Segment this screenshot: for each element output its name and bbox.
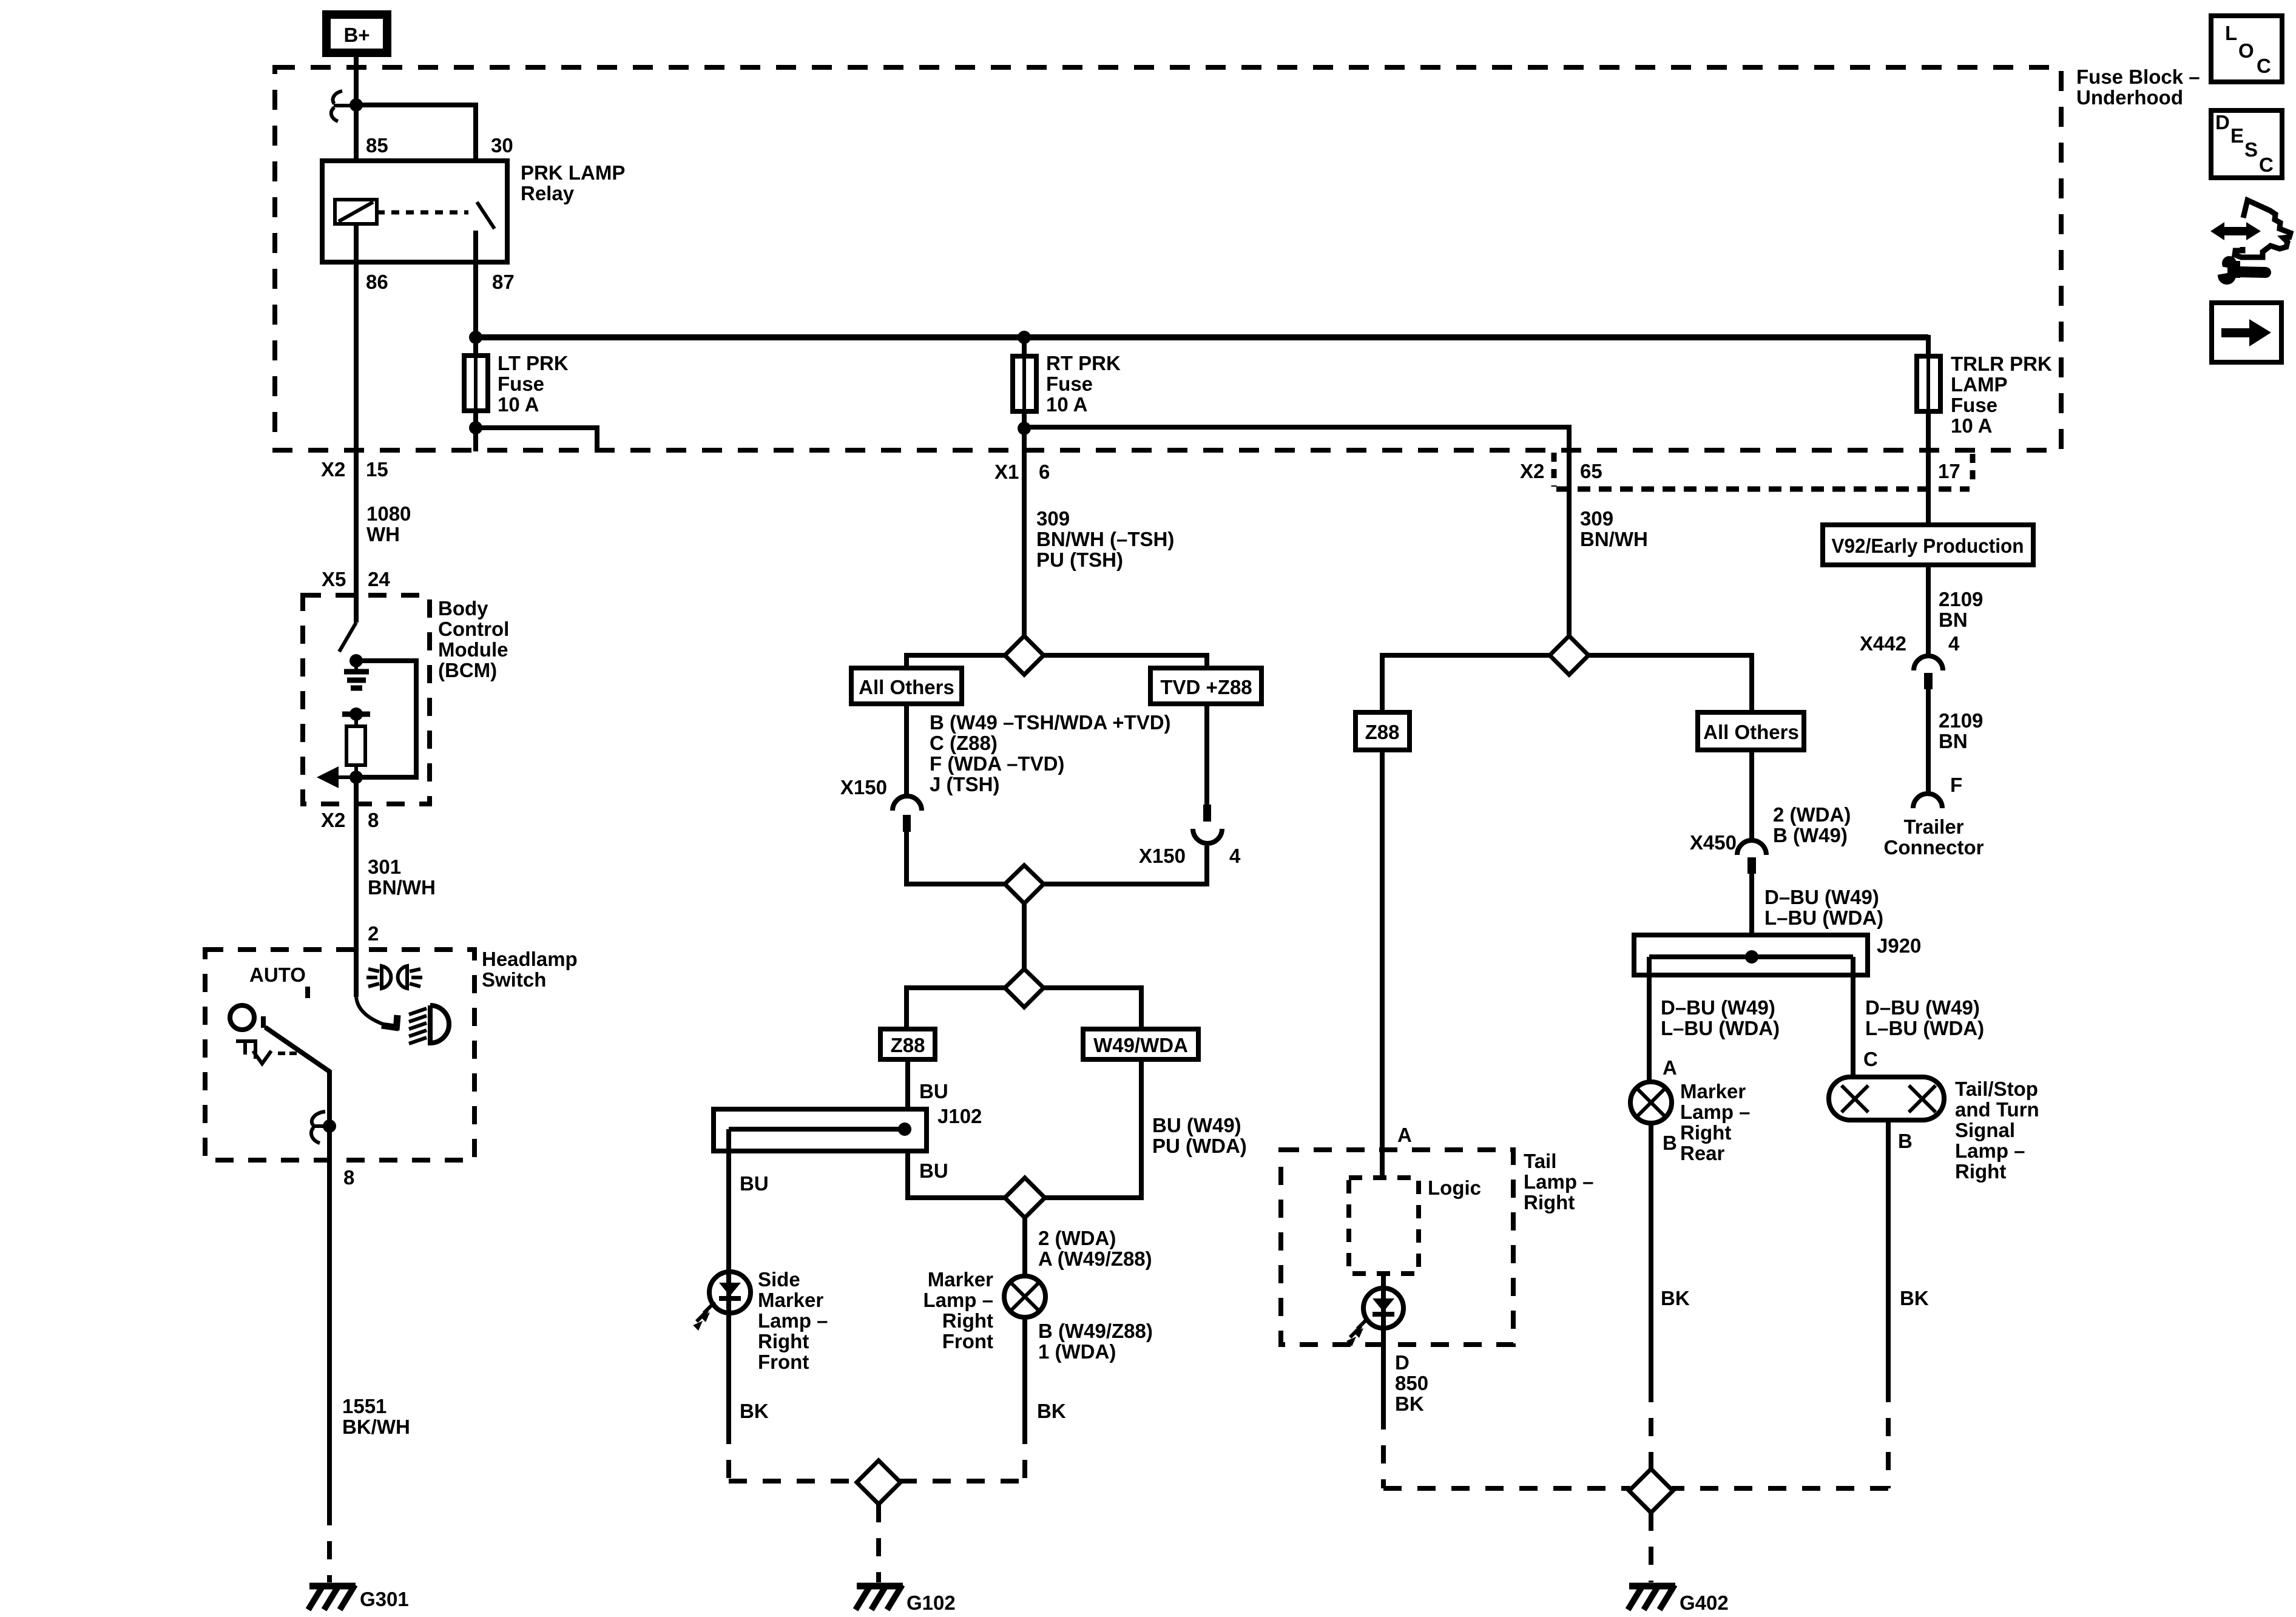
connector label X1 pin 6 [994,461,1050,483]
wire: Z88 to J102 [905,1059,910,1129]
svg-text:2109: 2109 [1939,588,1983,610]
dashed wire: marker rear to ground splice [1649,1384,1653,1470]
connector label X5 pin 24 [322,568,390,590]
OFF position tick [261,1016,266,1028]
LT PRK fuse label [498,352,569,416]
headlamp beam icon [409,1005,449,1044]
svg-text:10 A: 10 A [1951,414,1992,437]
wire label 309 BN/WH right [1580,507,1648,550]
svg-text:Right: Right [1955,1160,2006,1183]
wire label 2109 BN lower [1939,709,1983,752]
ground G402 [1628,1585,1675,1610]
wire: J920 right drop to tail/stop lamp [1851,957,1855,1077]
svg-text:B: B [1898,1130,1913,1152]
splice diamond S1 front marker feed [1005,636,1044,675]
wire: marker rear BK down [1649,1123,1653,1384]
svg-text:309: 309 [1580,507,1613,530]
svg-text:BN/WH: BN/WH [368,876,436,899]
node: BCM internal junction A [349,654,363,667]
svg-text:(BCM): (BCM) [438,659,497,681]
wire label 1551 BK/WH [342,1395,410,1438]
connector X150 right half pin 4 [1193,805,1222,843]
ground splice diamond G102 [857,1460,900,1504]
dashed wire to G301 [327,1507,332,1582]
svg-text:G102: G102 [907,1592,956,1614]
svg-text:TRLR PRK: TRLR PRK [1951,353,2052,375]
svg-text:2 (WDA): 2 (WDA) [1038,1227,1116,1249]
svg-text:A (W49/Z88): A (W49/Z88) [1038,1247,1152,1270]
svg-text:S: S [2244,138,2258,161]
node: switch output junction [323,1119,336,1133]
tail lamp right dashed box [1281,1150,1513,1345]
connector label X2 pin 8 [321,809,379,831]
svg-text:BN: BN [1939,730,1968,752]
svg-text:Fuse: Fuse [1046,373,1093,395]
trailer connector label [1884,815,1984,859]
svg-text:Fuse Block –: Fuse Block – [2076,66,2200,88]
svg-text:J102: J102 [937,1105,982,1127]
svg-text:30: 30 [491,134,513,157]
tail lamp LED rays [1346,1318,1368,1346]
svg-text:Signal: Signal [1955,1119,2015,1141]
wire label D-BU L-BU right drop [1865,996,1984,1039]
wire label 309 BN/WH (-TSH) PU (TSH) [1036,507,1174,571]
svg-text:Lamp –: Lamp – [1955,1139,2025,1162]
dashed wire: tail/stop to ground bus [1672,1384,1888,1488]
svg-text:C: C [1863,1048,1878,1070]
svg-text:X150: X150 [1139,845,1186,867]
svg-text:X5: X5 [322,568,346,590]
wire: LT PRK fuse output [473,411,478,451]
svg-text:Side: Side [758,1268,800,1291]
BCM label [438,597,509,681]
side marker LED rays [693,1302,715,1331]
svg-text:PU (TSH): PU (TSH) [1036,549,1123,571]
wire: Z88 rear to tail lamp logic [1380,750,1385,1178]
Z88 box (front) [880,1029,935,1059]
Body Control Module BCM dashed box [303,595,430,804]
svg-text:C (Z88): C (Z88) [930,732,998,754]
icon wrench [2212,256,2266,285]
connector X442 [1914,656,1943,689]
wire label 1080 WH [366,502,411,545]
wire: S5 to All Others rear branch [1589,655,1752,712]
wire label D-BU L-BU upper [1764,886,1883,929]
relay PRK LAMP box [322,161,507,262]
svg-text:V92/Early Production: V92/Early Production [1832,535,2024,557]
node: bus junction at RT PRK fuse [1018,331,1031,344]
tail/stop lamp label [1955,1078,2039,1183]
svg-text:Lamp –: Lamp – [1680,1101,1751,1123]
svg-text:10 A: 10 A [1046,393,1087,416]
svg-text:L–BU (WDA): L–BU (WDA) [1661,1017,1780,1039]
svg-text:BK: BK [1900,1287,1929,1309]
relay coil [335,200,377,224]
bulkhead curl on B+ wire [331,91,356,121]
svg-text:4: 4 [1229,845,1241,867]
ground G102 [856,1585,903,1610]
svg-text:Right: Right [1524,1191,1575,1214]
All Others box (front) [851,668,962,704]
wire: RT PRK output to right tail circuit [1024,427,1569,636]
wire: TRLR fuse to V92 box [1926,411,1931,525]
wire label D 850 BK [1395,1351,1428,1415]
headlamp switch input curve with arrow [356,997,399,1030]
wire label 301 BN/WH [368,856,436,899]
Z88 box (rear) [1356,712,1410,750]
svg-text:All Others: All Others [1703,721,1799,743]
svg-text:BK: BK [1037,1400,1066,1422]
svg-text:8: 8 [343,1166,354,1189]
svg-text:B (W49/Z88): B (W49/Z88) [1038,1320,1153,1342]
svg-text:Right: Right [942,1309,993,1332]
wire label D-BU L-BU left drop [1661,996,1780,1039]
relay switch blade [477,202,495,229]
BCM driver switch blade [339,623,356,652]
wire: J102 bottom to splice S4 [908,1151,1005,1198]
svg-text:D: D [1395,1351,1410,1374]
BCM internal ground [344,661,369,688]
pin annotation B C F J [930,711,1171,795]
svg-text:F: F [1950,774,1962,796]
connector label X2 pin 65 [1520,460,1602,482]
svg-text:D: D [2215,111,2230,133]
svg-text:301: 301 [368,856,401,878]
svg-text:BK: BK [1395,1393,1424,1415]
wire: S5 to Z88 rear branch [1382,655,1550,712]
icon next-page arrow box [2212,303,2281,362]
svg-text:Lamp –: Lamp – [923,1289,993,1311]
svg-text:Switch: Switch [482,968,546,991]
headlamp switch dashed box [205,950,474,1160]
connector X150 left half [893,796,922,832]
svg-text:BU: BU [919,1160,948,1182]
svg-text:B: B [1663,1132,1677,1154]
svg-text:2: 2 [368,922,379,945]
svg-text:Relay: Relay [521,182,575,204]
splice diamond S3 [1005,969,1044,1007]
marker lamp right rear label [1680,1080,1751,1164]
wire: X150 to lower splice [907,832,1005,884]
splice pack J920 [1634,935,1868,975]
svg-text:17: 17 [1938,460,1960,482]
svg-text:2 (WDA): 2 (WDA) [1773,803,1851,826]
wire label B (W49/Z88) 1 (WDA) [1038,1320,1153,1363]
connector label X2 pin 15 [321,458,388,481]
svg-text:L: L [2225,22,2237,44]
svg-text:A: A [1397,1124,1412,1146]
node: BCM output junction [349,771,363,784]
wire: X442 to trailer connector [1926,689,1931,794]
wire: side marker lamp BK down [726,1313,731,1426]
wire: tail lamp D 850 BK [1381,1328,1386,1411]
node: J920 bus junction [1745,950,1758,964]
svg-text:LT PRK: LT PRK [498,352,569,374]
side marker lamp label [758,1268,828,1373]
svg-text:X150: X150 [840,776,887,798]
svg-text:Fuse: Fuse [498,373,544,395]
svg-text:Rear: Rear [1680,1142,1725,1164]
svg-text:PRK LAMP: PRK LAMP [521,161,625,184]
svg-text:Underhood: Underhood [2076,86,2183,109]
svg-text:4: 4 [1948,632,1960,655]
BCM internal loop wire [356,661,416,777]
svg-text:Lamp –: Lamp – [1524,1170,1594,1193]
svg-text:BU (W49): BU (W49) [1152,1114,1241,1136]
svg-text:D–BU (W49): D–BU (W49) [1865,996,1980,1019]
wire: LT PRK output stub [476,428,597,451]
wire: junction to relay pin 30 [356,105,476,201]
svg-text:8: 8 [368,809,379,831]
svg-text:X442: X442 [1860,632,1906,655]
dashed BK wire right to ground bus [1022,1426,1027,1484]
node: LT PRK output junction [469,421,482,434]
svg-text:E: E [2230,124,2244,147]
wire: S3 to W49/WDA branch [1044,988,1141,1029]
marker lamp right front label [923,1268,993,1352]
resistor in BCM [346,714,365,777]
svg-text:BN/WH (–TSH): BN/WH (–TSH) [1036,528,1174,550]
splice diamond S4 [1005,1178,1045,1218]
BCM output arrow [317,766,356,788]
svg-text:Body: Body [438,597,488,619]
svg-text:Control: Control [438,618,509,640]
svg-text:RT PRK: RT PRK [1046,352,1121,374]
svg-text:85: 85 [366,134,388,157]
svg-text:2109: 2109 [1939,709,1983,732]
marker lamp right rear bulb [1630,1082,1672,1123]
svg-text:B (W49): B (W49) [1773,824,1848,846]
svg-text:X450: X450 [1690,831,1737,854]
splice pack J102 [714,1109,927,1151]
headlamp switch label [482,948,578,991]
svg-text:1551: 1551 [342,1395,387,1417]
icon part outline [2235,200,2291,257]
svg-text:BU: BU [740,1172,769,1195]
ground splice diamond G402 [1629,1469,1673,1513]
connector X450 [1737,840,1766,874]
svg-text:J920: J920 [1877,934,1921,957]
svg-text:L–BU (WDA): L–BU (WDA) [1865,1017,1984,1039]
logic dashed box [1349,1178,1419,1274]
svg-text:X2: X2 [1520,460,1544,482]
OFF position circle [230,1005,254,1030]
wire label 2 (WDA) A (W49/Z88) [1038,1227,1152,1270]
wire: S2 to S3 [1022,903,1027,969]
wire: S3 to Z88 branch [907,988,1005,1029]
svg-text:B (W49 –TSH/WDA +TVD): B (W49 –TSH/WDA +TVD) [930,711,1171,734]
wire: relay coil pin 86 down to BCM [354,224,359,623]
svg-text:WH: WH [366,523,400,545]
svg-text:J (TSH): J (TSH) [930,773,1000,795]
dashed BK wire left to ground bus [726,1426,731,1484]
ground G301 [308,1585,356,1610]
wire: J920 left drop to marker lamp right rear [1647,957,1652,1082]
svg-text:Tail/Stop: Tail/Stop [1955,1078,2038,1100]
splice diamond S5 rear feed [1550,636,1589,675]
svg-text:Marker: Marker [758,1289,823,1311]
icon part locator arrow [2210,222,2261,240]
wire: relay pin 87 to bus [473,231,478,337]
svg-text:G402: G402 [1680,1592,1729,1614]
svg-text:Front: Front [942,1330,993,1352]
tail lamp right label [1524,1150,1594,1214]
svg-text:Z88: Z88 [891,1034,925,1056]
svg-text:Marker: Marker [1680,1080,1746,1102]
fuse TRLR PRK LAMP 10A [1917,356,1940,411]
tail/stop and turn signal lamp [1829,1077,1944,1120]
svg-text:Right: Right [1680,1121,1731,1144]
X450 labels [1690,803,1851,854]
svg-text:C: C [2259,154,2274,176]
wire: splice to TVD +Z88 branch [1044,655,1207,668]
trailer connector arc [1913,794,1942,808]
svg-text:10 A: 10 A [498,393,539,416]
svg-text:AUTO: AUTO [249,964,306,986]
wire label 2109 BN upper [1939,588,1983,631]
wire: tail/stop BK down [1886,1120,1891,1384]
wire: All Others to X450 [1749,750,1754,841]
relay coil-switch dashed link [377,211,468,215]
svg-text:Right: Right [758,1330,809,1352]
wire: W49/WDA down to splice S4 [1045,1059,1141,1198]
svg-text:65: 65 [1580,460,1602,482]
svg-text:850: 850 [1395,1372,1428,1394]
wire: X150 pin4 to lower splice [1044,846,1207,884]
headlamp switch wiper [265,1027,329,1126]
wire: V92 box to X442 [1926,565,1931,657]
marker lamp right front bulb [1004,1276,1045,1317]
TRLR PRK LAMP fuse label [1951,353,2052,437]
svg-text:X1: X1 [994,461,1019,483]
svg-text:Connector: Connector [1884,836,1984,859]
dashed wire: tail lamp to ground bus [1383,1411,1630,1488]
BCM resistor top tick [342,712,370,717]
wire: J102 to side marker lamp [726,1129,731,1272]
park position icon [236,1041,297,1064]
fuse block X2/17 connector notch dashed outline [1554,453,1973,489]
svg-text:BN: BN [1939,609,1968,631]
svg-text:F (WDA –TVD): F (WDA –TVD) [930,752,1064,775]
dashed wire: splice to G402 [1649,1513,1653,1582]
splice diamond S2 [1005,865,1044,903]
park lamps icon [366,966,422,988]
X150 pin 4 labels [1139,845,1241,867]
svg-text:G301: G301 [360,1588,409,1610]
node: pin 87 bus junction [469,331,482,344]
svg-text:A: A [1663,1056,1677,1079]
svg-text:1080: 1080 [366,502,411,525]
wire: bus corner to TRLR fuse [1926,335,1931,356]
svg-text:Headlamp: Headlamp [482,948,578,970]
svg-text:Front: Front [758,1351,809,1373]
svg-text:All Others: All Others [859,676,954,698]
svg-text:BU: BU [919,1080,948,1102]
svg-text:O: O [2238,39,2254,62]
svg-text:Logic: Logic [1428,1176,1481,1199]
svg-text:and Turn: and Turn [1955,1098,2039,1121]
wire: X450 to J920 [1749,874,1754,957]
svg-text:BK: BK [740,1400,769,1422]
PRK LAMP Relay label [521,161,625,204]
fuse RT PRK 10A [1013,337,1036,411]
svg-text:Trailer: Trailer [1903,815,1963,838]
svg-text:L–BU (WDA): L–BU (WDA) [1764,906,1883,929]
svg-text:C: C [2257,55,2271,77]
X442 pin 4 labels [1860,632,1960,655]
svg-text:Lamp –: Lamp – [758,1309,828,1332]
icon DESC box [2211,110,2282,178]
tail lamp LED [1363,1274,1403,1328]
svg-text:LAMP: LAMP [1951,373,2008,396]
wire: main feed bus to fuses [476,334,1928,340]
wire: B+ to relay coil pin 85 [354,57,359,200]
svg-text:X2: X2 [321,809,345,831]
svg-text:1 (WDA): 1 (WDA) [1038,1340,1116,1363]
svg-text:TVD +Z88: TVD +Z88 [1160,676,1252,698]
svg-text:6: 6 [1039,461,1050,483]
wiper contact curl [311,1112,329,1143]
wire: All Others to X150 [904,704,909,797]
wire: TVD +Z88 to X150 pin 4 [1204,704,1209,806]
battery feed B+ [326,15,387,53]
svg-text:Marker: Marker [928,1268,993,1291]
fuse LT PRK 10A [464,337,488,411]
fuse block underhood dashed boundary [275,67,2061,450]
svg-text:PU (WDA): PU (WDA) [1152,1135,1247,1157]
svg-text:X2: X2 [321,458,345,481]
svg-text:Z88: Z88 [1365,721,1400,743]
svg-text:86: 86 [366,271,388,293]
TVD +Z88 box [1150,668,1261,704]
svg-text:BK: BK [1661,1287,1690,1309]
svg-text:15: 15 [366,458,388,481]
svg-text:D–BU (W49): D–BU (W49) [1764,886,1879,908]
wire: switch output to ground run [327,1126,332,1507]
node: B+ wire junction [349,98,363,112]
svg-text:W49/WDA: W49/WDA [1093,1034,1188,1056]
svg-text:BN/WH: BN/WH [1580,528,1648,550]
wire: S4 to marker lamp right front [1022,1218,1027,1276]
dashed ground bus G102 [729,1479,1025,1484]
icon LOC box [2211,16,2282,82]
wire: splice to All Others branch [907,655,1005,668]
svg-text:87: 87 [492,271,515,293]
node: RT PRK output junction [1018,422,1031,435]
svg-text:D–BU (W49): D–BU (W49) [1661,996,1775,1019]
svg-text:309: 309 [1036,507,1070,530]
svg-text:Fuse: Fuse [1951,394,1997,416]
node: J102 bus junction [898,1122,911,1136]
svg-text:Module: Module [438,638,508,661]
side marker lamp right front LED [709,1272,751,1313]
All Others box (rear) [1698,712,1804,750]
AUTO position tick [305,987,310,998]
V92/Early Production box [1823,525,2033,565]
node: BCM resistor top [349,707,363,721]
svg-text:24: 24 [368,568,390,590]
wire: RT PRK fuse output down [1022,411,1027,636]
wire label BU (W49) PU (WDA) [1152,1114,1247,1157]
svg-text:Tail: Tail [1524,1150,1556,1172]
label: Fuse Block - Underhood [2076,66,2200,109]
svg-text:BK/WH: BK/WH [342,1416,410,1438]
RT PRK fuse label [1046,352,1121,416]
wire: marker lamp BK down [1022,1317,1027,1426]
dashed wire: splice to G102 [876,1504,881,1582]
svg-text:B+: B+ [343,24,370,46]
wire: BCM to headlamp switch [354,777,359,997]
